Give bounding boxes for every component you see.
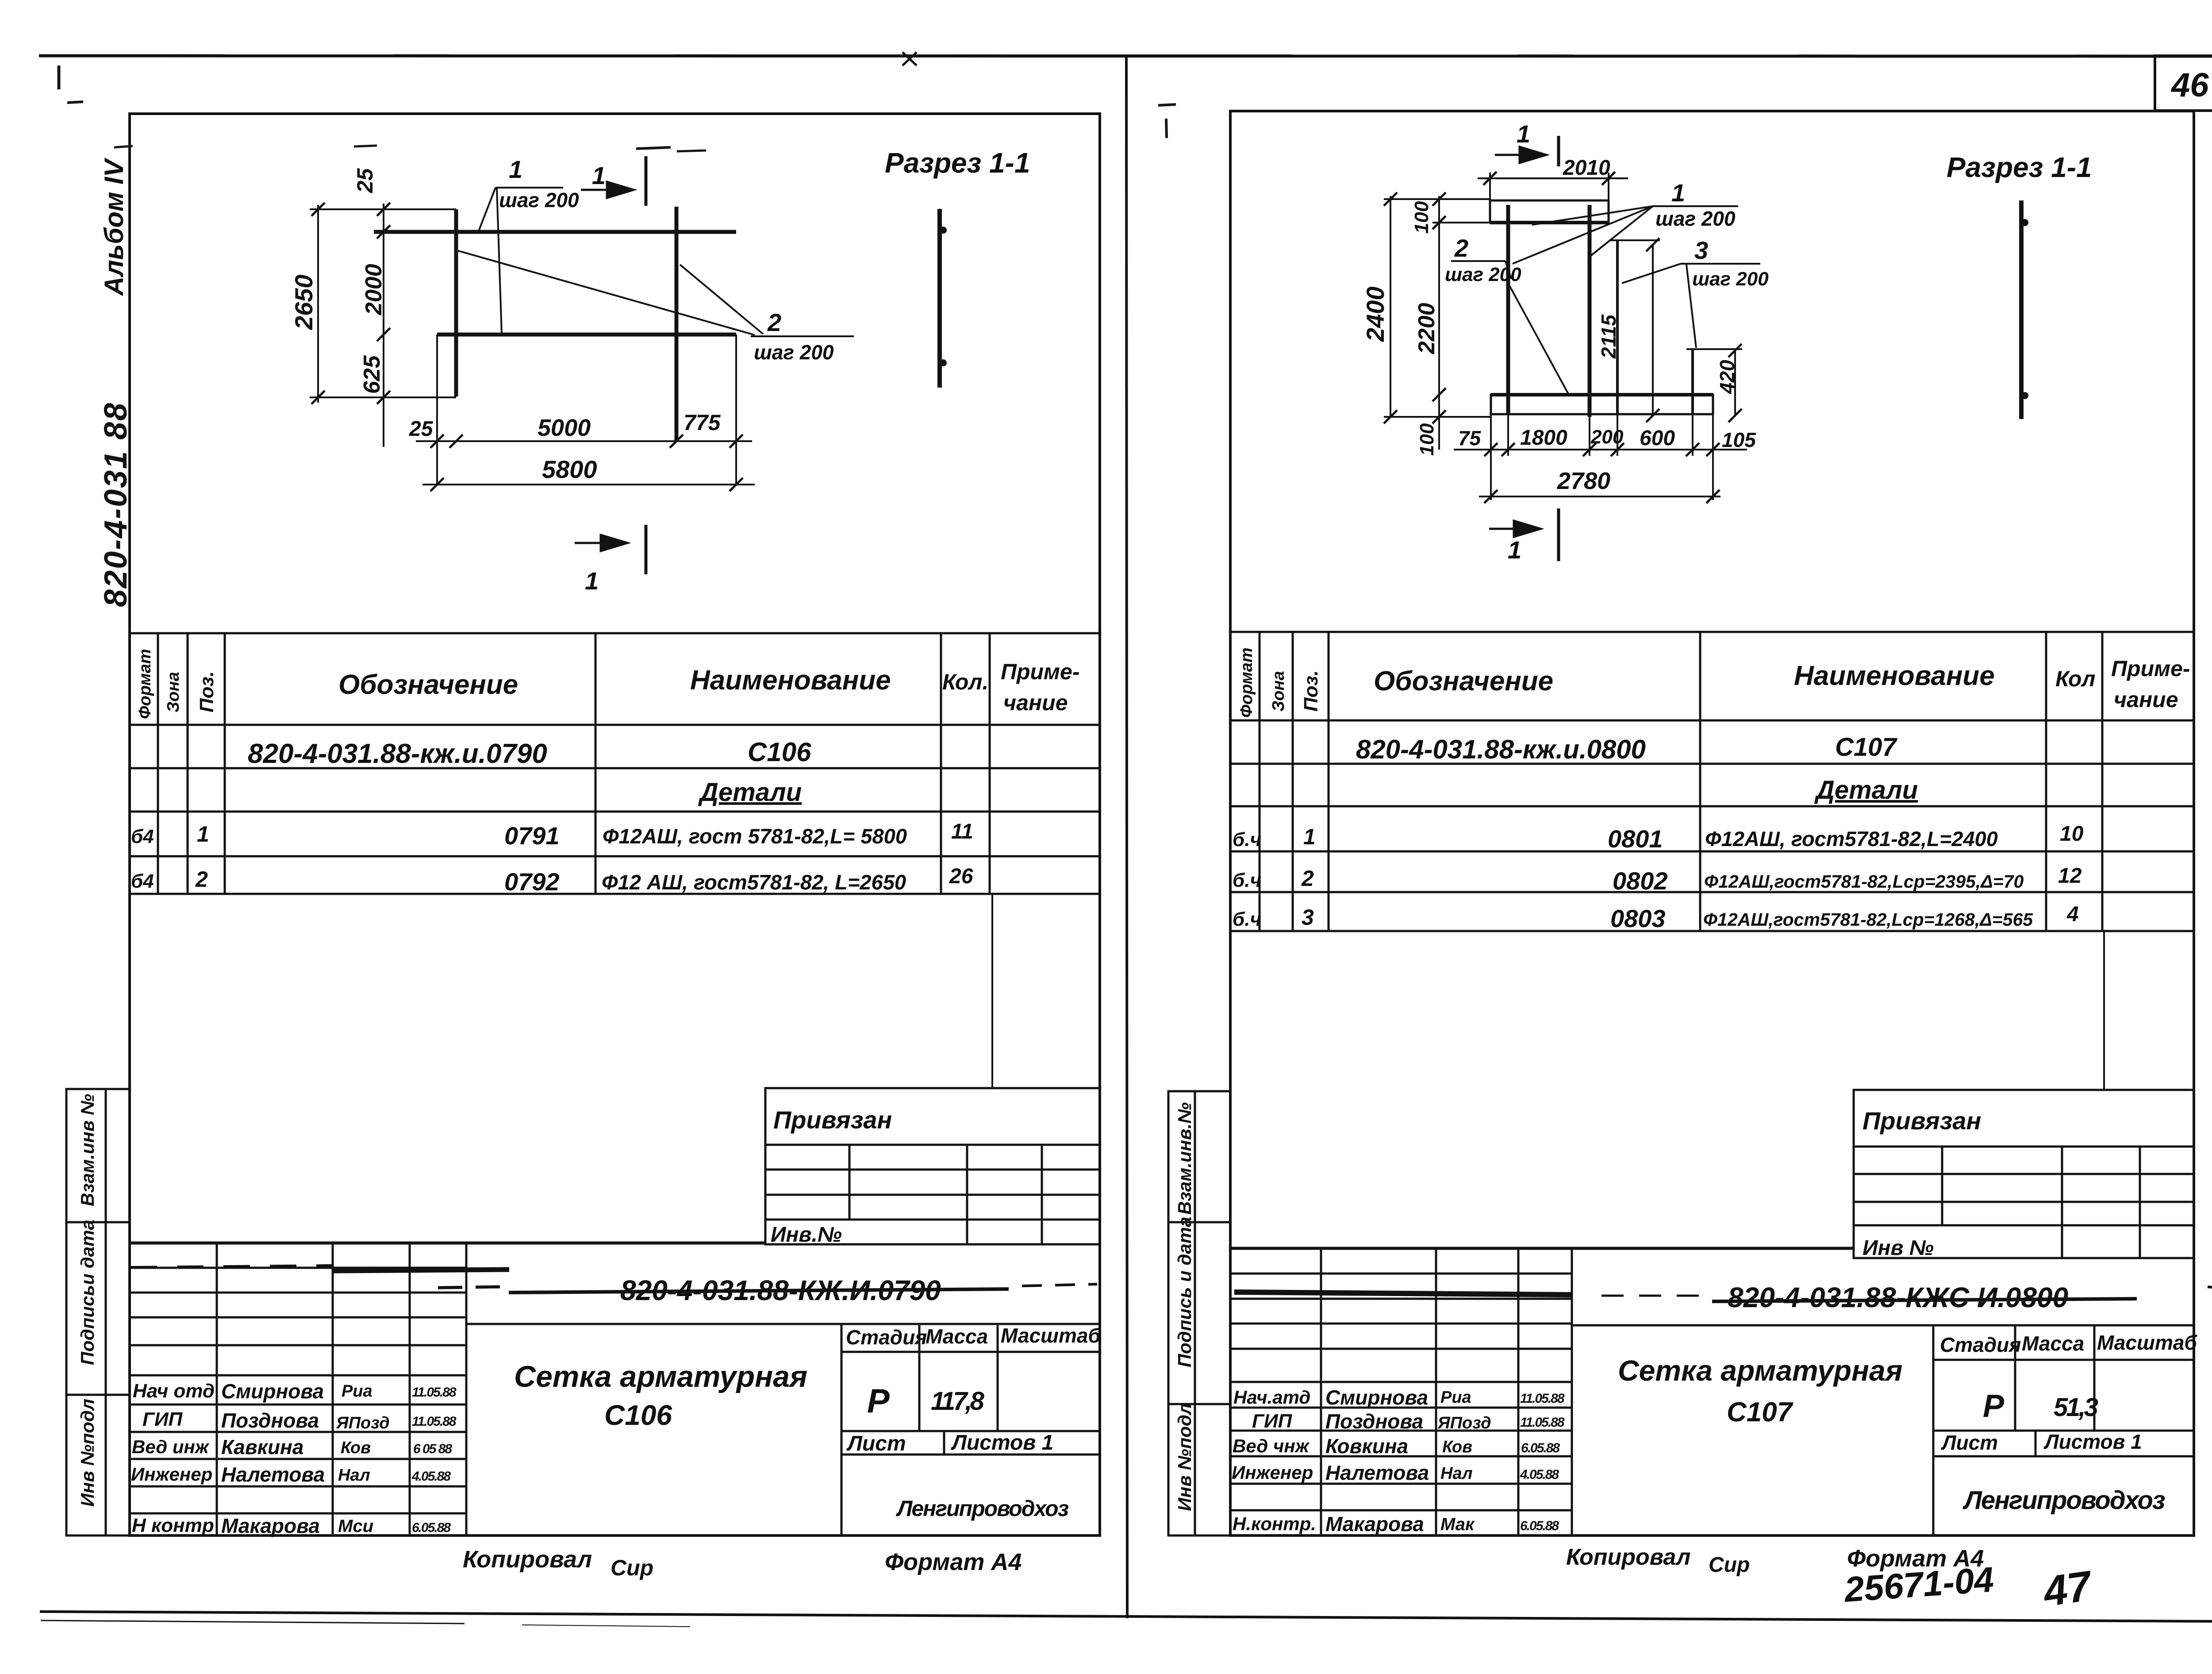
svg-text:ЯПозд: ЯПозд bbox=[336, 1414, 390, 1432]
leader pos1 fan bbox=[1532, 206, 1653, 225]
dimension line 2010 bbox=[1478, 177, 1628, 179]
section mark bottom: line bbox=[645, 525, 648, 574]
svg-text:820-4-031.88-кж.и.0790: 820-4-031.88-кж.и.0790 bbox=[248, 739, 547, 769]
leader pos2 underline bbox=[751, 335, 854, 337]
right mesh: 2010 dim extensions bbox=[1489, 173, 1491, 200]
svg-text:Р: Р bbox=[867, 1382, 890, 1420]
svg-text:2: 2 bbox=[767, 308, 781, 336]
svg-text:4.05.88: 4.05.88 bbox=[411, 1469, 451, 1484]
svg-text:11: 11 bbox=[951, 820, 973, 843]
svg-text:Зона: Зона bbox=[1269, 671, 1288, 712]
right strike-through smear bbox=[1712, 1299, 2137, 1301]
svg-text:Риа: Риа bbox=[1440, 1388, 1471, 1407]
svg-text:11.05.88: 11.05.88 bbox=[1520, 1391, 1565, 1406]
svg-text:10: 10 bbox=[2060, 822, 2084, 846]
svg-text:0802: 0802 bbox=[1613, 867, 1668, 895]
svg-text:Лист: Лист bbox=[846, 1432, 906, 1455]
svg-text:ГИП: ГИП bbox=[142, 1408, 183, 1430]
svg-text:5000: 5000 bbox=[538, 415, 591, 441]
svg-text:Нач отд: Нач отд bbox=[133, 1380, 215, 1402]
svg-text:Масштаб: Масштаб bbox=[2097, 1331, 2197, 1354]
page number box 46 bbox=[2155, 56, 2212, 111]
right margin strip boxes bbox=[1168, 1091, 1230, 1535]
svg-text:2650: 2650 bbox=[290, 274, 318, 330]
ext from rect left down bbox=[1490, 414, 1492, 500]
section view bar dots right bbox=[2021, 219, 2028, 226]
svg-text:Альбом IV: Альбом IV bbox=[99, 157, 129, 296]
scan marks right sheet top-left bbox=[1158, 104, 1176, 105]
right mesh: bottom bar rectangle bbox=[1491, 395, 1713, 414]
svg-text:шаг 200: шаг 200 bbox=[1445, 264, 1521, 285]
faint second bottom line bbox=[41, 1620, 465, 1624]
svg-text:Ков: Ков bbox=[1442, 1438, 1472, 1456]
svg-text:Наименование: Наименование bbox=[1794, 661, 1995, 691]
svg-text:1800: 1800 bbox=[1520, 426, 1567, 450]
dim ticks left column bbox=[311, 203, 390, 404]
svg-text:6.05.88: 6.05.88 bbox=[412, 1520, 451, 1535]
svg-text:Макарова: Макарова bbox=[221, 1514, 320, 1537]
svg-text:чание: чание bbox=[2114, 687, 2178, 712]
svg-text:Вед чнж: Вед чнж bbox=[1233, 1435, 1310, 1456]
svg-text:Вед инж: Вед инж bbox=[132, 1436, 210, 1457]
svg-text:Приме-: Приме- bbox=[1001, 659, 1080, 684]
ext 2115 top bbox=[1610, 239, 1660, 241]
svg-text:Р: Р bbox=[1983, 1389, 2005, 1424]
svg-text:Взам.инв.№: Взам.инв.№ bbox=[1174, 1102, 1195, 1215]
svg-text:Сир: Сир bbox=[1709, 1553, 1750, 1577]
dimension line 2115 bbox=[1652, 245, 1654, 416]
svg-text:2: 2 bbox=[1454, 234, 1468, 262]
svg-text:С107: С107 bbox=[1727, 1397, 1793, 1428]
svg-text:Масса: Масса bbox=[2022, 1332, 2084, 1355]
leader pos2 to bar1 bbox=[1505, 261, 1511, 279]
leader pos2 diagonal long bbox=[457, 250, 755, 335]
svg-text:100: 100 bbox=[1411, 201, 1432, 234]
svg-text:Листов 1: Листов 1 bbox=[2043, 1430, 2142, 1453]
svg-text:11.05.88: 11.05.88 bbox=[412, 1414, 457, 1429]
svg-text:2780: 2780 bbox=[1557, 468, 1610, 494]
svg-text:47: 47 bbox=[2039, 1562, 2096, 1616]
svg-text:Кавкина: Кавкина bbox=[221, 1435, 303, 1458]
svg-text:3: 3 bbox=[1302, 905, 1314, 930]
svg-text:Кол: Кол bbox=[2055, 666, 2095, 691]
svg-text:б.ч: б.ч bbox=[1233, 908, 1261, 930]
svg-text:Разрез 1-1: Разрез 1-1 bbox=[885, 147, 1030, 179]
svg-text:Копировал: Копировал bbox=[1566, 1544, 1690, 1570]
svg-text:625: 625 bbox=[359, 355, 385, 394]
leader pos1 to top bar bbox=[479, 188, 495, 231]
svg-text:Н контр: Н контр bbox=[132, 1515, 214, 1536]
svg-text:Листов 1: Листов 1 bbox=[951, 1431, 1053, 1455]
ext from rect right down bbox=[1712, 414, 1714, 500]
svg-text:Инв №подл: Инв №подл bbox=[1174, 1403, 1195, 1511]
section mark bottom right: line bbox=[1557, 508, 1560, 561]
leader pos2 diagonal short bbox=[680, 265, 763, 334]
dimension line 420 bbox=[1734, 350, 1736, 416]
dimension line 25/5000/775 bbox=[416, 440, 752, 442]
right mesh: bottom extension bbox=[1384, 416, 1491, 418]
svg-text:4: 4 bbox=[2066, 903, 2079, 926]
TEXTS-PLACEHOLDER bbox=[310, 156, 947, 574]
svg-text:Инв.№: Инв.№ bbox=[771, 1223, 842, 1247]
svg-text:2115: 2115 bbox=[1597, 314, 1620, 359]
svg-text:Формат А4: Формат А4 bbox=[885, 1549, 1022, 1575]
left mesh: transverse bar left (pos 2) bbox=[454, 209, 458, 396]
svg-text:6.05.88: 6.05.88 bbox=[1520, 1519, 1559, 1533]
svg-text:775: 775 bbox=[684, 410, 721, 435]
section view bar dots bbox=[940, 227, 947, 234]
left sheet frame bbox=[130, 114, 1100, 1535]
svg-text:1: 1 bbox=[509, 155, 522, 183]
right title block grid bbox=[1230, 1248, 2194, 1535]
svg-text:46: 46 bbox=[2170, 66, 2209, 104]
left mesh: transverse bar right (pos 2) bbox=[675, 207, 679, 441]
svg-text:6 05 88: 6 05 88 bbox=[413, 1442, 452, 1456]
svg-text:1: 1 bbox=[592, 162, 606, 189]
left strike-through smear bbox=[509, 1289, 1009, 1293]
left mesh: longitudinal bar top (pos 1) bbox=[374, 230, 736, 234]
svg-text:Сетка арматурная: Сетка арматурная bbox=[514, 1360, 807, 1393]
svg-text:2: 2 bbox=[1301, 866, 1314, 891]
right mesh: vertical bar 3 (pos 3) bbox=[1616, 240, 1619, 416]
svg-text:2010: 2010 bbox=[1563, 156, 1610, 180]
svg-text:1: 1 bbox=[197, 822, 209, 847]
svg-text:420: 420 bbox=[1716, 360, 1739, 394]
svg-text:Инв №подл: Инв №подл bbox=[77, 1399, 98, 1507]
right mesh: dimension line 2400 bbox=[1390, 196, 1391, 417]
svg-text:Макарова: Макарова bbox=[1325, 1512, 1424, 1535]
section mark top: line bbox=[645, 156, 648, 206]
svg-text:100: 100 bbox=[1416, 423, 1438, 456]
dim ticks right left col bbox=[1384, 172, 1742, 423]
svg-text:Налетова: Налетова bbox=[221, 1463, 325, 1486]
scan dashes above left drawing bbox=[354, 146, 377, 146]
svg-text:шаг 200: шаг 200 bbox=[1655, 207, 1736, 230]
svg-text:2: 2 bbox=[195, 867, 208, 892]
svg-text:Подписьи дата: Подписьи дата bbox=[77, 1220, 98, 1365]
svg-text:Масштаб: Масштаб bbox=[1001, 1324, 1101, 1347]
svg-text:0803: 0803 bbox=[1610, 904, 1666, 932]
sheet divider line bbox=[1126, 55, 1127, 1618]
section mark bottom right: arrow bbox=[1489, 521, 1540, 537]
left title block grid bbox=[130, 1243, 1100, 1535]
leader pos1 right underline bbox=[1653, 205, 1738, 207]
svg-text:Ленгипроводхоз: Ленгипроводхоз bbox=[896, 1496, 1069, 1521]
svg-text:820-4-031.88-КЖС И.0800: 820-4-031.88-КЖС И.0800 bbox=[1728, 1281, 2068, 1313]
svg-text:Ф12АШ, гост5781-82,L=2400: Ф12АШ, гост5781-82,L=2400 bbox=[1705, 827, 1998, 850]
svg-text:Приме-: Приме- bbox=[2111, 656, 2190, 681]
svg-text:Ф12АШ,гост5781-82,Lср=1268,Δ=5: Ф12АШ,гост5781-82,Lср=1268,Δ=565 bbox=[1703, 909, 2033, 930]
svg-text:0801: 0801 bbox=[1608, 825, 1663, 853]
svg-text:51,3: 51,3 bbox=[2054, 1393, 2098, 1422]
section mark top right: line bbox=[1557, 136, 1560, 166]
svg-text:Лист: Лист bbox=[1941, 1431, 1998, 1454]
section mark top right: arrow bbox=[1495, 147, 1546, 163]
right mesh: top bar rectangle (pos 2 top) bbox=[1490, 200, 1609, 223]
right sheet frame bbox=[1230, 111, 2194, 1535]
LEFT SPEC TABLE grid bbox=[130, 633, 1100, 894]
svg-text:1: 1 bbox=[1508, 536, 1521, 564]
left mesh: dimension line 2000/625/25 bbox=[383, 204, 384, 447]
svg-text:Ков: Ков bbox=[341, 1439, 371, 1457]
svg-text:Ленгипроводхоз: Ленгипроводхоз bbox=[1962, 1486, 2165, 1515]
svg-text:б4: б4 bbox=[131, 826, 154, 847]
left Kol divider extension bbox=[991, 894, 993, 1088]
svg-text:11.05.88: 11.05.88 bbox=[1520, 1415, 1565, 1430]
svg-text:Обозначение: Обозначение bbox=[338, 670, 518, 700]
scan mark top-left bbox=[58, 65, 61, 89]
svg-text:Подпись и дата: Подпись и дата bbox=[1174, 1217, 1195, 1367]
svg-text:ЯПозд: ЯПозд bbox=[1437, 1414, 1491, 1432]
svg-text:5800: 5800 bbox=[542, 455, 597, 483]
svg-text:Нач.атд: Нач.атд bbox=[1233, 1387, 1310, 1408]
svg-text:1: 1 bbox=[1303, 824, 1316, 849]
svg-text:Налетова: Налетова bbox=[1325, 1461, 1429, 1484]
left mesh: bottom-left edge bbox=[310, 396, 456, 398]
svg-text:Смирнова: Смирнова bbox=[1325, 1386, 1428, 1409]
svg-text:820-4-031.88-кж.и.0800: 820-4-031.88-кж.и.0800 bbox=[1356, 735, 1646, 764]
svg-text:2400: 2400 bbox=[1361, 286, 1389, 342]
diagonal inside right mesh bbox=[1508, 283, 1568, 394]
svg-text:С106: С106 bbox=[748, 737, 811, 767]
svg-text:Формат: Формат bbox=[1237, 647, 1256, 718]
right mesh: top extension bbox=[1384, 198, 1490, 200]
svg-text:Инженер: Инженер bbox=[131, 1464, 212, 1485]
dimension line 2780 bbox=[1479, 496, 1720, 497]
svg-text:Привязан: Привязан bbox=[773, 1106, 892, 1134]
svg-text:2200: 2200 bbox=[1414, 303, 1440, 354]
svg-text:Н.контр.: Н.контр. bbox=[1233, 1513, 1316, 1534]
svg-text:Детали: Детали bbox=[698, 778, 802, 807]
left mesh: dimension line 2650 bbox=[317, 205, 319, 403]
svg-text:2000: 2000 bbox=[361, 264, 387, 316]
svg-text:С106: С106 bbox=[604, 1399, 672, 1431]
section view line (Razrez 1-1 right) bbox=[2019, 200, 2024, 419]
right mesh: vertical bar 1 (pos 1) bbox=[1506, 205, 1510, 414]
svg-text:Детали: Детали bbox=[1814, 776, 1918, 804]
section mark top: arrow bbox=[581, 182, 634, 198]
svg-text:Наименование: Наименование bbox=[690, 665, 891, 696]
svg-text:Кол.: Кол. bbox=[942, 670, 988, 694]
svg-text:Сир: Сир bbox=[611, 1555, 653, 1580]
svg-text:С107: С107 bbox=[1835, 733, 1897, 762]
leader pos2 right underline bbox=[1451, 260, 1505, 262]
svg-text:Масса: Масса bbox=[926, 1325, 988, 1348]
svg-text:Ф12 АШ, гост5781-82, L=2650: Ф12 АШ, гост5781-82, L=2650 bbox=[602, 870, 906, 894]
leader pos1 to bottom bar bbox=[497, 189, 502, 334]
leader pos3 to bar3 bbox=[1622, 264, 1681, 283]
scan x mark near divider top bbox=[902, 52, 917, 65]
dim ticks right bottom bbox=[1484, 443, 1720, 503]
svg-text:Стадия: Стадия bbox=[846, 1326, 927, 1349]
svg-text:3: 3 bbox=[1694, 236, 1708, 264]
section mark bottom: arrow bbox=[575, 535, 627, 551]
right mesh: short right vertical bbox=[1691, 349, 1694, 416]
svg-text:Ф12АШ,гост5781-82,Lср=2395,Δ=7: Ф12АШ,гост5781-82,Lср=2395,Δ=70 bbox=[1704, 871, 2024, 892]
page top border bbox=[39, 56, 2212, 56]
left mesh: longitudinal bar bottom (pos 1) bbox=[437, 333, 736, 337]
left mesh: right edge extension bbox=[735, 335, 737, 485]
right Privyazan box bbox=[1854, 1090, 2194, 1258]
svg-text:105: 105 bbox=[1722, 428, 1756, 451]
svg-text:Мак: Мак bbox=[1440, 1515, 1475, 1534]
svg-text:11.05.88: 11.05.88 bbox=[412, 1385, 457, 1400]
svg-text:Сетка арматурная: Сетка арматурная bbox=[1618, 1354, 1903, 1387]
svg-text:25: 25 bbox=[353, 168, 377, 193]
left mesh: left edge extension bbox=[436, 335, 438, 485]
RIGHT SPEC TABLE grid bbox=[1230, 632, 2194, 931]
svg-text:Стадия: Стадия bbox=[1940, 1333, 2021, 1356]
dim ticks bottom bbox=[430, 435, 743, 491]
right Kol divider extension bbox=[2103, 931, 2105, 1090]
svg-text:Ковкина: Ковкина bbox=[1325, 1435, 1408, 1458]
svg-text:Мси: Мси bbox=[338, 1516, 373, 1536]
svg-text:Поз.: Поз. bbox=[196, 671, 218, 712]
svg-text:Смирнова: Смирнова bbox=[221, 1380, 324, 1403]
page bottom border bbox=[40, 1612, 2212, 1621]
svg-text:Инв №: Инв № bbox=[1863, 1236, 1934, 1260]
svg-text:Позднова: Позднова bbox=[1325, 1410, 1423, 1433]
svg-text:Разрез 1-1: Разрез 1-1 bbox=[1947, 151, 2092, 183]
right mesh: extension at 100 bbox=[1432, 222, 1490, 223]
svg-text:12: 12 bbox=[2058, 864, 2082, 888]
svg-text:820-4-031 88: 820-4-031 88 bbox=[98, 402, 134, 607]
svg-text:Риа: Риа bbox=[342, 1382, 373, 1401]
dimension line 75/1800/200/600/105 bbox=[1454, 449, 1747, 450]
left margin strip boxes bbox=[66, 1089, 130, 1535]
left mesh: top edge extension bbox=[310, 208, 456, 210]
svg-text:б4: б4 bbox=[131, 870, 154, 892]
right mesh: vertical bar 2 (pos 1) bbox=[1588, 205, 1592, 417]
svg-text:1: 1 bbox=[1517, 120, 1530, 148]
svg-text:1: 1 bbox=[585, 567, 599, 595]
svg-text:Копировал: Копировал bbox=[463, 1546, 592, 1573]
left Privyazan box bbox=[765, 1088, 1100, 1244]
svg-text:200: 200 bbox=[1590, 426, 1624, 448]
svg-text:25: 25 bbox=[409, 417, 434, 441]
leader pos3 to right vertical bbox=[1686, 265, 1696, 348]
ext 420 top bbox=[1686, 348, 1742, 350]
right mesh: dimension line 2200/100 bbox=[1438, 196, 1440, 450]
svg-text:Ф12АШ, гост 5781-82,L= 5800: Ф12АШ, гост 5781-82,L= 5800 bbox=[603, 824, 907, 848]
section view line (Razrez 1-1 left) bbox=[937, 209, 942, 388]
svg-text:0792: 0792 bbox=[504, 868, 560, 896]
svg-text:Нал: Нал bbox=[1440, 1464, 1473, 1483]
svg-text:600: 600 bbox=[1640, 427, 1675, 450]
bar ticks to dim line bbox=[1507, 414, 1509, 456]
svg-text:б.ч: б.ч bbox=[1233, 870, 1261, 891]
svg-text:6.05.88: 6.05.88 bbox=[1521, 1441, 1560, 1455]
svg-text:0791: 0791 bbox=[504, 822, 560, 850]
svg-text:Зона: Зона bbox=[164, 672, 183, 712]
svg-text:чание: чание bbox=[1003, 690, 1068, 715]
svg-text:ГИП: ГИП bbox=[1252, 1410, 1293, 1432]
leader pos1 underline bbox=[495, 187, 563, 189]
svg-text:Взам.инв №: Взам.инв № bbox=[77, 1094, 98, 1206]
svg-text:1: 1 bbox=[1671, 179, 1685, 207]
svg-text:26: 26 bbox=[949, 865, 973, 888]
leader pos3 right underline bbox=[1681, 263, 1760, 265]
svg-text:шаг 200: шаг 200 bbox=[1692, 268, 1769, 290]
svg-text:Привязан: Привязан bbox=[1863, 1107, 1981, 1135]
svg-text:Нал: Нал bbox=[338, 1466, 370, 1485]
svg-text:117,8: 117,8 bbox=[931, 1387, 985, 1416]
svg-text:Инженер: Инженер bbox=[1232, 1462, 1313, 1483]
svg-text:Поз.: Поз. bbox=[1300, 670, 1322, 712]
svg-text:б.ч: б.ч bbox=[1233, 829, 1261, 850]
svg-text:Формат: Формат bbox=[136, 649, 154, 719]
svg-text:4.05.88: 4.05.88 bbox=[1520, 1467, 1559, 1482]
svg-text:шаг 200: шаг 200 bbox=[754, 341, 834, 364]
svg-text:шаг 200: шаг 200 bbox=[499, 189, 579, 212]
svg-text:Обозначение: Обозначение bbox=[1374, 666, 1553, 697]
svg-text:Позднова: Позднова bbox=[221, 1409, 319, 1432]
dimension line 5800 bbox=[422, 484, 755, 485]
svg-text:75: 75 bbox=[1458, 427, 1482, 450]
